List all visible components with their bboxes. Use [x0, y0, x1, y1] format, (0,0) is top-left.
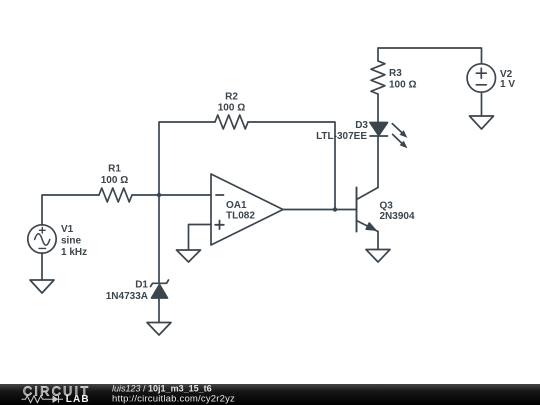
- svg-text:1 V: 1 V: [500, 79, 515, 90]
- svg-text:sine: sine: [61, 236, 81, 247]
- svg-text:R3: R3: [389, 68, 402, 79]
- svg-text:1 kHz: 1 kHz: [61, 247, 87, 258]
- wire R2 right to node B: [248, 122, 335, 210]
- svg-text:OA1: OA1: [226, 200, 247, 211]
- wire node A down to D1: [158, 195, 160, 283]
- op-amp OA1: [211, 174, 283, 245]
- svg-text:V1: V1: [61, 224, 74, 235]
- node A junction dot: [157, 193, 161, 197]
- zener diode D1: [151, 280, 169, 298]
- wire op-amp plus input to ground: [189, 225, 212, 251]
- svg-text:D3: D3: [355, 120, 368, 131]
- label R3 / 100 Ohm: [389, 68, 416, 91]
- wire node A up to feedback: [159, 122, 215, 195]
- svg-text:http://circuitlab.com/cy2r2yz: http://circuitlab.com/cy2r2yz: [112, 394, 235, 405]
- label V1 / sine / 1 kHz: [61, 224, 87, 258]
- node B junction dot: [333, 207, 337, 211]
- svg-text:TL082: TL082: [226, 211, 255, 222]
- label Q3 / 2N3904: [380, 201, 415, 222]
- label R1 / 100 Ohm: [101, 164, 128, 187]
- wire D3 up to R3: [377, 94, 379, 123]
- resistor R1: [99, 188, 132, 202]
- wire V1 bottom to ground: [41, 253, 43, 280]
- wire R3 top across to V2: [378, 48, 482, 64]
- svg-text:D1: D1: [135, 280, 148, 291]
- svg-text:luis123 / 10j1_m3_15_t6: luis123 / 10j1_m3_15_t6: [112, 384, 212, 394]
- svg-text:LAB: LAB: [66, 394, 90, 405]
- label R2 / 100 Ohm: [218, 92, 245, 114]
- LED D3: [370, 123, 407, 149]
- svg-text:R2: R2: [225, 92, 238, 103]
- resistor R3: [371, 61, 385, 94]
- voltage source V1: [28, 225, 56, 253]
- label V2 / 1 V: [500, 69, 515, 90]
- svg-text:100 Ω: 100 Ω: [218, 103, 245, 114]
- ground (op-amp plus): [177, 250, 201, 262]
- ground (V1): [30, 280, 54, 293]
- voltage source V2: [467, 64, 495, 92]
- svg-text:1N4733A: 1N4733A: [106, 291, 148, 302]
- svg-text:100 Ω: 100 Ω: [101, 175, 128, 186]
- wire V1 top to R1: [42, 195, 99, 225]
- wire D1 to ground: [158, 298, 160, 323]
- svg-text:2N3904: 2N3904: [380, 211, 415, 222]
- svg-text:LTL-307EE: LTL-307EE: [316, 131, 367, 142]
- ground (D1): [147, 323, 171, 336]
- svg-text:R1: R1: [108, 164, 121, 175]
- wire Q3 emitter to ground: [377, 232, 379, 250]
- logo CIRCUIT LAB: [22, 385, 91, 405]
- wire node B to Q3 base: [335, 209, 357, 211]
- transistor Q3: [357, 188, 379, 232]
- wire R1 to node A: [132, 194, 159, 196]
- svg-text:100 Ω: 100 Ω: [389, 80, 416, 91]
- label D1 / 1N4733A: [106, 280, 149, 303]
- wire Q3 collector up to D3: [377, 136, 379, 188]
- wire node A to op-amp minus input: [159, 194, 211, 196]
- footer credit text: [112, 384, 235, 405]
- label D3 / LTL-307EE: [316, 120, 368, 142]
- label OA1 / TL082: [226, 200, 255, 222]
- resistor R2: [215, 115, 248, 129]
- wire op-amp output to node B: [283, 209, 335, 211]
- ground (Q3 emitter): [366, 250, 390, 263]
- footer bar: [0, 384, 540, 405]
- ground (V2): [470, 116, 494, 129]
- wire V2 bottom to ground: [481, 93, 483, 117]
